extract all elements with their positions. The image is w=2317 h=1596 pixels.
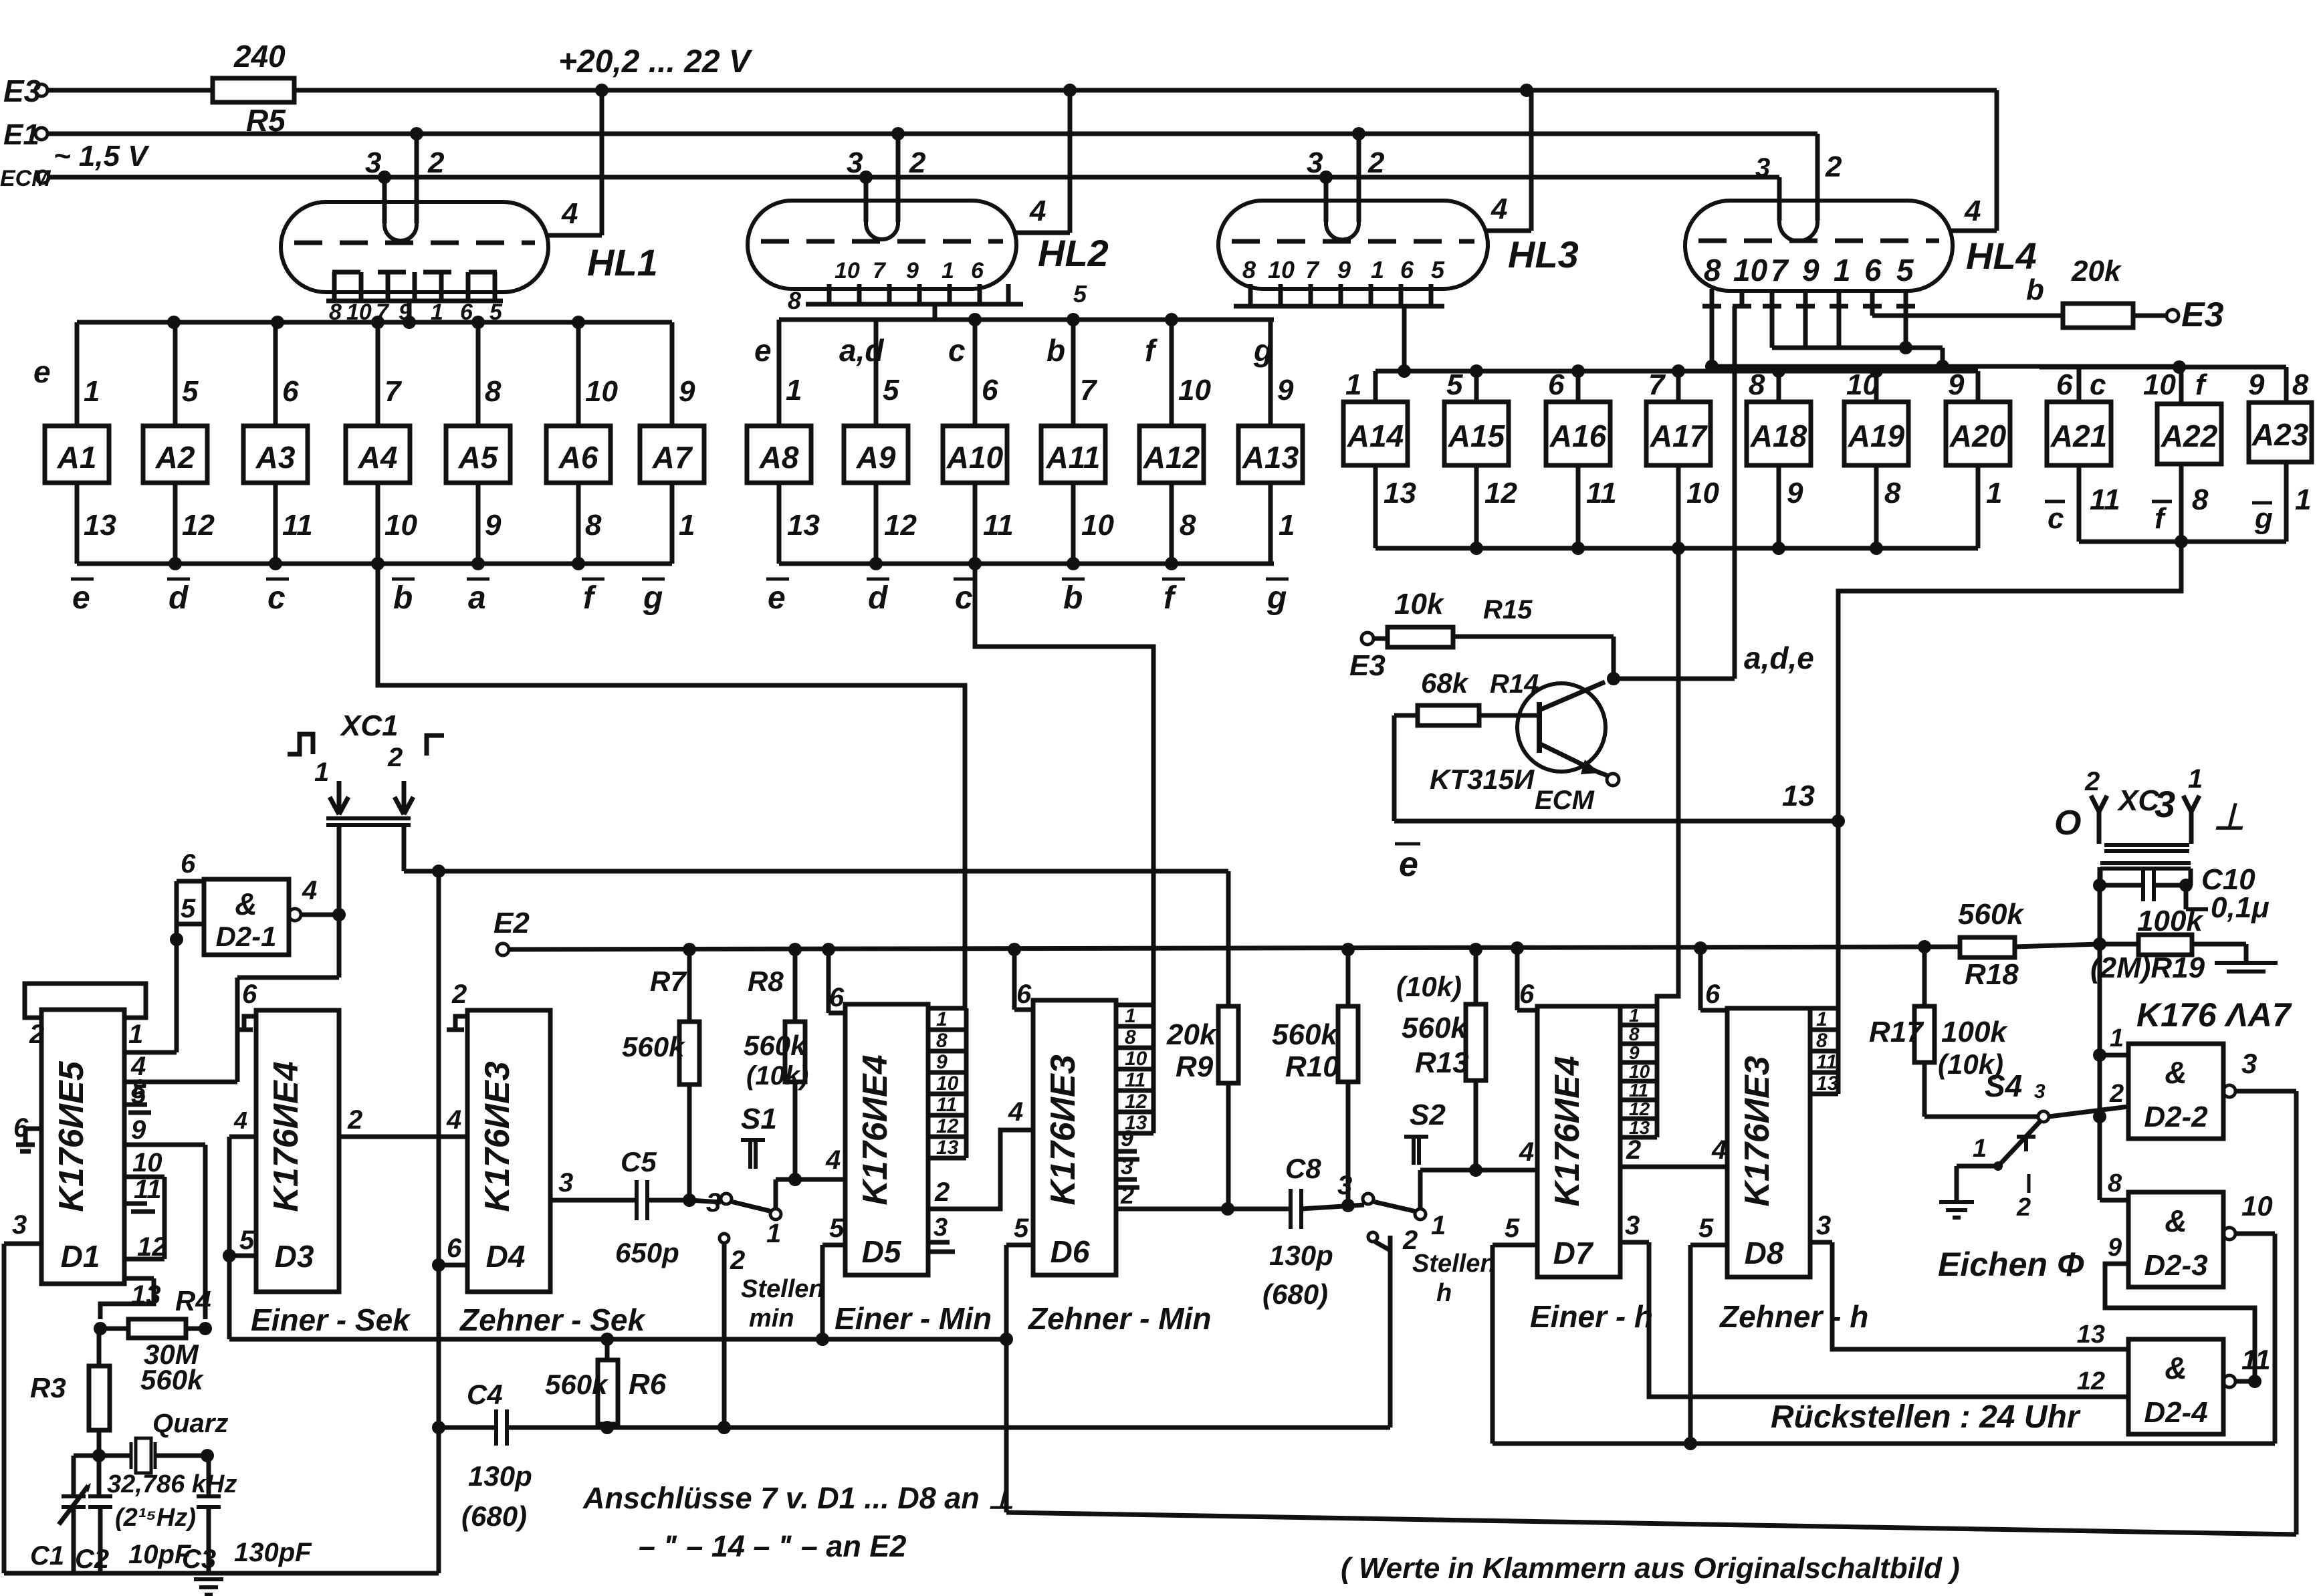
svg-text:10: 10 xyxy=(936,1072,959,1095)
svg-text:A9: A9 xyxy=(856,440,896,475)
group4 bottom bus xyxy=(2079,540,2286,544)
svg-text:9: 9 xyxy=(1121,1126,1133,1151)
D7 pin3 wire to D2-4 pin12 xyxy=(1620,1240,1649,1245)
HL4 grid dashed line xyxy=(1698,239,1939,243)
svg-text:20k: 20k xyxy=(1166,1018,1218,1051)
svg-text:3: 3 xyxy=(706,1188,721,1218)
HL3 pin drop to hours segment bus xyxy=(1402,306,1407,371)
svg-text:(680): (680) xyxy=(1262,1278,1328,1310)
driver box A22 xyxy=(2157,404,2221,464)
svg-text:12: 12 xyxy=(2077,1367,2105,1395)
svg-text:9: 9 xyxy=(2108,1234,2122,1262)
HL2 pin 4 wire xyxy=(1014,231,1070,235)
svg-text:A10: A10 xyxy=(946,440,1004,475)
svg-text:6: 6 xyxy=(1548,368,1565,401)
XC1 connector bars xyxy=(326,816,411,820)
svg-text:A23: A23 xyxy=(2251,417,2309,452)
HL2 heater loop xyxy=(866,221,898,239)
XC3 connector bars upper xyxy=(2104,843,2189,847)
svg-text:KT315И: KT315И xyxy=(1430,764,1535,795)
svg-text:12: 12 xyxy=(1125,1091,1147,1113)
wire A7 bottom xyxy=(670,483,675,564)
driver box A8 xyxy=(747,426,811,483)
HL4 heater loop xyxy=(1779,219,1817,241)
wire E1 bus xyxy=(47,132,1817,136)
D2-1 input tie xyxy=(175,881,179,939)
svg-text:6: 6 xyxy=(242,980,257,1009)
D8 pin5 wire xyxy=(1690,1243,1727,1248)
svg-text:12: 12 xyxy=(1484,477,1517,509)
svg-text:3: 3 xyxy=(558,1168,573,1198)
HL2 pin 3 lead xyxy=(864,177,869,222)
HL3 pin 3 lead xyxy=(1324,177,1329,222)
VFD tube HL1 xyxy=(281,202,548,292)
svg-text:HL2: HL2 xyxy=(1038,232,1109,274)
svg-text:1: 1 xyxy=(766,1219,781,1248)
svg-text:A19: A19 xyxy=(1848,419,1905,453)
wire A4 top xyxy=(376,322,380,426)
svg-text:A7: A7 xyxy=(652,440,693,475)
capacitor C2 10pF xyxy=(97,1456,102,1496)
wire R17/S4 to D2-2 pin2 xyxy=(1924,1115,2038,1119)
D5 pin6 wire to E2 xyxy=(829,1011,845,1016)
svg-text:11: 11 xyxy=(983,509,1014,542)
wire A11 top xyxy=(1071,320,1076,426)
wire A4 bottom xyxy=(376,483,380,564)
HL4 pin6 wire to 20k xyxy=(1870,306,1875,316)
svg-text:3: 3 xyxy=(2034,1080,2046,1103)
D1 pin10 wire xyxy=(124,1175,164,1179)
wire A12 top xyxy=(1170,320,1174,426)
svg-text:D2-3: D2-3 xyxy=(2144,1249,2207,1282)
Eichen bottom rail xyxy=(1006,1512,2296,1534)
wire A16 top xyxy=(1576,371,1581,402)
terminal E1 xyxy=(35,128,47,140)
HL3 pin 4 wire xyxy=(1485,229,1531,233)
svg-text:A17: A17 xyxy=(1650,419,1708,453)
svg-text:h: h xyxy=(1436,1279,1452,1307)
ground symbol at C3 xyxy=(194,1577,223,1581)
svg-text:12: 12 xyxy=(884,509,917,542)
HL4 pin 4 wire xyxy=(1950,229,1997,233)
svg-text:6: 6 xyxy=(1016,980,1032,1009)
node top bus / HL1 pin4 xyxy=(595,84,609,97)
driver box A20 xyxy=(1946,402,2010,465)
svg-text:( Werte in Klammern aus Origin: ( Werte in Klammern aus Originalschaltbi… xyxy=(1341,1552,1960,1585)
resistor R15 10k xyxy=(1361,633,1373,645)
resistor R10 560k xyxy=(1338,1006,1358,1082)
wire A9 bottom xyxy=(874,483,879,564)
svg-text:a: a xyxy=(468,580,486,616)
svg-text:20k: 20k xyxy=(2071,255,2122,288)
svg-text:5: 5 xyxy=(883,374,899,407)
svg-text:HL4: HL4 xyxy=(1966,235,2037,277)
HL4 pin5 wire xyxy=(1904,306,1908,348)
svg-text:4: 4 xyxy=(233,1107,247,1134)
HL3 heater loop xyxy=(1326,221,1359,240)
wire S2 to D7 pin4 xyxy=(1420,1168,1537,1173)
driver box A9 xyxy=(844,426,908,483)
emitter wire to ECM terminal xyxy=(1597,772,1608,776)
svg-text:13: 13 xyxy=(1384,477,1416,509)
HL2 pin bracket xyxy=(806,302,1023,307)
svg-text:D1: D1 xyxy=(61,1239,100,1274)
D3 pin2 wire to D4 pin4 xyxy=(339,1135,467,1139)
svg-text:Einer - Min: Einer - Min xyxy=(835,1301,992,1336)
svg-text:3: 3 xyxy=(1121,1154,1133,1179)
svg-text:9: 9 xyxy=(1337,256,1351,283)
svg-text:9: 9 xyxy=(1948,368,1965,401)
svg-text:12: 12 xyxy=(182,509,215,542)
svg-text:D5: D5 xyxy=(862,1234,902,1269)
svg-text:4: 4 xyxy=(825,1145,841,1175)
svg-text:5: 5 xyxy=(1431,256,1445,283)
svg-text:b: b xyxy=(1046,333,1065,368)
svg-text:Stellen: Stellen xyxy=(741,1275,824,1303)
svg-text:12: 12 xyxy=(137,1232,167,1262)
IC D8 K176IE3 xyxy=(1727,1008,1810,1277)
driver box A12 xyxy=(1139,426,1204,483)
driver box A11 xyxy=(1041,426,1105,483)
svg-text:11: 11 xyxy=(1816,1051,1837,1073)
D5 pin5 wire xyxy=(822,1243,845,1248)
svg-text:E3: E3 xyxy=(2181,296,2224,334)
svg-text:A12: A12 xyxy=(1143,440,1200,475)
D6 pin5 wire xyxy=(1006,1243,1033,1248)
wire A21 bottom xyxy=(2077,465,2082,542)
ground/reset vertical rail xyxy=(437,871,441,1573)
transistor Q1 KT315I xyxy=(1517,683,1606,772)
node top bus / HL2 pin4 xyxy=(1063,84,1077,97)
D1 pin11 stub xyxy=(124,1202,147,1206)
svg-text:11: 11 xyxy=(1586,477,1617,509)
svg-text:g: g xyxy=(1266,580,1287,616)
svg-text:Rückstellen : 24 Uhr: Rückstellen : 24 Uhr xyxy=(1771,1399,2081,1435)
wire A7 top xyxy=(670,322,675,426)
wire D2-2 out to Eichen rail xyxy=(2294,1091,2299,1534)
group4 top bus xyxy=(2039,365,2286,370)
svg-text:g: g xyxy=(2254,502,2273,535)
D1 pin8 stub xyxy=(124,1103,147,1107)
Eichen rail vertical xyxy=(1004,1339,1009,1512)
wire A18 bottom xyxy=(1777,465,1781,548)
driver box A19 xyxy=(1844,402,1908,465)
wire D2-1 output xyxy=(301,913,339,917)
svg-text:~ 1,5 V: ~ 1,5 V xyxy=(53,140,150,173)
svg-text:9: 9 xyxy=(1629,1042,1640,1063)
svg-text:3: 3 xyxy=(847,146,863,179)
IC D4 K176IE3 xyxy=(467,1010,550,1292)
svg-text:1: 1 xyxy=(1371,256,1384,283)
svg-text:D2-1: D2-1 xyxy=(215,921,276,952)
capacitor C3 130pF xyxy=(207,1456,211,1496)
svg-text:S1: S1 xyxy=(741,1103,777,1135)
svg-text:+20,2 ... 22 V: +20,2 ... 22 V xyxy=(558,44,753,80)
svg-text:E3: E3 xyxy=(1349,649,1386,682)
resistor R9 20k xyxy=(1218,1006,1238,1083)
svg-text:2: 2 xyxy=(2016,1193,2031,1222)
svg-text:c: c xyxy=(267,580,286,616)
VFD tube HL4 xyxy=(1685,201,1953,291)
svg-text:4: 4 xyxy=(1519,1137,1534,1167)
IC D5 K176IE4 xyxy=(845,1004,928,1275)
svg-text:6: 6 xyxy=(982,374,998,407)
svg-text:560k: 560k xyxy=(622,1031,686,1062)
svg-text:3: 3 xyxy=(1337,1171,1352,1200)
HL1 pin drop to segment bus xyxy=(407,301,412,322)
svg-text:R8: R8 xyxy=(748,965,784,997)
D2-3 pin8 wire xyxy=(2100,1198,2128,1203)
svg-text:10: 10 xyxy=(384,509,417,542)
svg-text:10: 10 xyxy=(1178,374,1211,407)
svg-text:5: 5 xyxy=(182,375,199,408)
svg-text:HL3: HL3 xyxy=(1508,233,1579,275)
ground at S4 xyxy=(1939,1200,1974,1204)
XC3 pin1 fork xyxy=(2189,810,2194,844)
wire segment c-bar to D6 ladder xyxy=(975,564,1153,1005)
svg-text:8: 8 xyxy=(2192,483,2209,516)
svg-text:2: 2 xyxy=(1825,150,1842,183)
svg-text:K176ИЕ4: K176ИЕ4 xyxy=(856,1054,895,1205)
terminal E2 xyxy=(497,943,509,955)
HL1 pin 3 lead xyxy=(382,177,387,223)
svg-text:C2: C2 xyxy=(75,1545,109,1574)
pulse symbol at XC1 xyxy=(288,734,313,754)
wire A17 top xyxy=(1676,371,1681,402)
wire A8 top xyxy=(777,320,782,426)
D2-1 pin6 stub xyxy=(177,879,204,884)
ground at R19 xyxy=(2244,944,2249,963)
Eichen line to counters (pin5 sec/min) xyxy=(229,1337,1006,1342)
HL4 bottom pin leads xyxy=(1710,289,1715,306)
svg-text:130pF: 130pF xyxy=(234,1538,312,1567)
XC1 pin1 arrow xyxy=(337,781,342,813)
resistor R6 560k xyxy=(598,1360,618,1424)
svg-text:6: 6 xyxy=(829,983,845,1012)
svg-text:R13: R13 xyxy=(1415,1046,1469,1079)
svg-text:1: 1 xyxy=(2295,483,2311,516)
svg-text:b: b xyxy=(1063,580,1083,616)
IC D6 K176IE3 xyxy=(1033,1000,1116,1275)
node ECM/HL2 pin3 xyxy=(859,170,873,184)
HL4 pin8 wire down xyxy=(1710,306,1715,366)
svg-text:e: e xyxy=(1399,845,1418,884)
svg-text:a,d,e: a,d,e xyxy=(1744,641,1814,675)
svg-text:A8: A8 xyxy=(759,440,799,475)
D5 pin ladder 1 8 9 10 11 12 13 xyxy=(928,1006,966,1011)
wire A5 top xyxy=(476,322,481,426)
svg-text:1: 1 xyxy=(1279,509,1295,542)
XC3 connector bars lower xyxy=(2100,861,2191,865)
wire A13 top xyxy=(1268,320,1273,426)
wire A10 top xyxy=(973,320,978,426)
svg-text:3: 3 xyxy=(1816,1211,1831,1240)
wire A20 bottom xyxy=(1976,465,1981,548)
svg-text:13: 13 xyxy=(84,509,116,542)
S2 pole wire xyxy=(1368,1232,1377,1242)
svg-text:A15: A15 xyxy=(1448,419,1506,453)
wire group4 to D8 ladder xyxy=(1838,542,2181,1008)
group1 segment bus bottom xyxy=(77,562,672,566)
gate D2-1 xyxy=(204,879,289,955)
D6 pin ladder 1 8 10 11 12 13 xyxy=(1116,1003,1153,1008)
svg-text:10: 10 xyxy=(1081,509,1114,542)
svg-text:12: 12 xyxy=(1629,1099,1650,1119)
svg-text:– ʺ – 14 – ʺ – an E2: – ʺ – 14 – ʺ – an E2 xyxy=(639,1529,906,1563)
svg-text:560k: 560k xyxy=(1272,1018,1339,1051)
D8 pin ladder 1 8 11 13 xyxy=(1810,1006,1838,1011)
svg-text:A16: A16 xyxy=(1549,419,1607,453)
wire A19 bottom xyxy=(1874,465,1879,548)
svg-text:2: 2 xyxy=(347,1105,362,1135)
HL2 grid dashed line xyxy=(761,239,1003,244)
svg-text:5: 5 xyxy=(239,1226,255,1255)
svg-text:5: 5 xyxy=(1014,1214,1029,1243)
svg-text:2: 2 xyxy=(934,1177,950,1207)
svg-text:2: 2 xyxy=(2084,767,2100,796)
svg-text:1: 1 xyxy=(1431,1211,1446,1240)
svg-text:3: 3 xyxy=(365,146,381,179)
wire A3 bottom xyxy=(273,483,278,564)
driver box A4 xyxy=(346,426,410,483)
svg-text:Einer - Sek: Einer - Sek xyxy=(251,1302,411,1337)
S2 contact1 wire to D7 pin4 xyxy=(1418,1170,1423,1209)
svg-text:D2-4: D2-4 xyxy=(2144,1396,2207,1429)
XC1 pin2 arrow xyxy=(402,781,407,813)
svg-text:9: 9 xyxy=(2248,368,2265,401)
svg-text:S4: S4 xyxy=(1985,1068,2022,1103)
svg-text:13: 13 xyxy=(1782,780,1815,812)
svg-text:9: 9 xyxy=(485,509,502,542)
node ECM/HL3 pin3 xyxy=(1319,170,1333,184)
node E1/HL2 pin2 xyxy=(891,127,905,140)
svg-text:R10: R10 xyxy=(1285,1050,1339,1083)
D7 pin5 wire xyxy=(1493,1243,1537,1248)
terminal E3 right xyxy=(2167,310,2179,322)
IC D1 K176IE5 xyxy=(41,1010,124,1284)
capacitor C10 0,1u xyxy=(2098,869,2103,885)
svg-text:R4: R4 xyxy=(175,1285,211,1317)
svg-text:A21: A21 xyxy=(2050,419,2107,453)
svg-text:2: 2 xyxy=(427,146,445,179)
driver box A17 xyxy=(1646,402,1711,465)
D8 pin6 wire to E2 xyxy=(1700,1008,1727,1013)
HL4 pin 2 lead xyxy=(1815,134,1820,221)
hours reset rail xyxy=(1493,1442,2275,1446)
driver box A2 xyxy=(143,426,207,483)
D6 pin6 wire to E2 xyxy=(1014,1008,1033,1012)
wire A18 top xyxy=(1777,371,1781,402)
svg-text:11: 11 xyxy=(2241,1344,2271,1375)
svg-text:5: 5 xyxy=(181,894,196,923)
svg-text:12: 12 xyxy=(936,1115,959,1137)
svg-text:11: 11 xyxy=(282,509,313,542)
svg-text:68k: 68k xyxy=(1421,667,1470,699)
svg-text:1: 1 xyxy=(1973,1135,1987,1163)
svg-text:3: 3 xyxy=(1625,1211,1640,1240)
svg-text:2: 2 xyxy=(1626,1135,1641,1165)
svg-text:560k: 560k xyxy=(1402,1012,1468,1044)
svg-text:8: 8 xyxy=(2292,368,2309,401)
stellen rail with C4 xyxy=(439,1426,496,1430)
svg-text:9: 9 xyxy=(1277,374,1294,407)
svg-text:8: 8 xyxy=(2108,1169,2122,1198)
svg-text:1: 1 xyxy=(2110,1024,2124,1052)
wire XC1 pin2 down xyxy=(402,825,407,871)
S1 contact1 wire to D5 pin4 xyxy=(774,1179,778,1209)
svg-text:1: 1 xyxy=(1834,253,1851,288)
D4 pin3 wire to C5 xyxy=(550,1198,637,1203)
svg-text:7: 7 xyxy=(1080,374,1098,407)
wire R14 left to e-bar line xyxy=(1392,715,1397,821)
capacitor C1 variable xyxy=(72,1456,76,1496)
svg-text:&: & xyxy=(2165,1351,2187,1385)
svg-text:A22: A22 xyxy=(2161,419,2218,453)
XC3 pin2 fork xyxy=(2097,810,2102,844)
svg-text:1: 1 xyxy=(1345,368,1361,401)
svg-text:10: 10 xyxy=(835,258,860,283)
svg-text:10: 10 xyxy=(1629,1061,1650,1082)
group2 segment bus bottom xyxy=(779,562,1274,566)
svg-text:1: 1 xyxy=(1125,1005,1136,1027)
wire XC1 pin1 down xyxy=(337,825,342,915)
wire A5 bottom xyxy=(476,483,481,564)
svg-text:10: 10 xyxy=(1733,253,1768,288)
svg-text:1: 1 xyxy=(1986,477,2002,509)
svg-text:(10k): (10k) xyxy=(1396,971,1462,1002)
capacitor C8 130p xyxy=(1289,1189,1293,1229)
svg-text:11: 11 xyxy=(936,1094,957,1116)
svg-text:Stellen: Stellen xyxy=(1412,1250,1496,1278)
wire A23 top xyxy=(2284,367,2289,403)
resistor R17 100k (10k) xyxy=(1914,1006,1935,1062)
wire A15 top xyxy=(1474,371,1479,402)
svg-text:D3: D3 xyxy=(275,1239,314,1274)
D4 pin6 stub xyxy=(439,1263,467,1268)
driver box A16 xyxy=(1546,402,1610,465)
svg-text:1: 1 xyxy=(128,1020,143,1049)
wire +20V top bus xyxy=(294,88,1997,93)
wire R15 to collector node xyxy=(1612,637,1616,679)
resistor 20k to E3 xyxy=(2063,304,2133,328)
svg-text:c: c xyxy=(2090,368,2106,401)
svg-text:2: 2 xyxy=(1120,1181,1134,1209)
svg-text:e: e xyxy=(72,580,90,616)
svg-text:S2: S2 xyxy=(1410,1099,1446,1131)
group2 segment bus top xyxy=(779,318,1274,322)
HL1 anode dashed line xyxy=(332,270,503,275)
D7 pin6 wire to E2 xyxy=(1517,1008,1537,1013)
HL3 grid dashed line xyxy=(1232,239,1474,244)
svg-text:10: 10 xyxy=(132,1148,162,1177)
D5 pin2 wire to D6 pin4 xyxy=(928,1130,1033,1209)
node top bus / HL3 pin4 xyxy=(1520,84,1533,97)
svg-text:10k: 10k xyxy=(1394,588,1445,620)
svg-text:3: 3 xyxy=(933,1214,948,1242)
svg-text:A5: A5 xyxy=(458,440,499,475)
svg-text:560k: 560k xyxy=(140,1364,205,1395)
wire A10 bottom xyxy=(973,483,978,564)
HL3 bottom pin leads xyxy=(1248,284,1253,306)
svg-text:1: 1 xyxy=(314,758,329,787)
wire A6 bottom xyxy=(576,483,581,564)
svg-text:4: 4 xyxy=(446,1105,461,1135)
svg-text:b: b xyxy=(393,580,413,616)
svg-text:A4: A4 xyxy=(358,440,398,475)
svg-text:3: 3 xyxy=(1755,153,1770,183)
HL2 pin drop to segment bus xyxy=(933,304,937,320)
svg-text:11: 11 xyxy=(1125,1069,1145,1091)
